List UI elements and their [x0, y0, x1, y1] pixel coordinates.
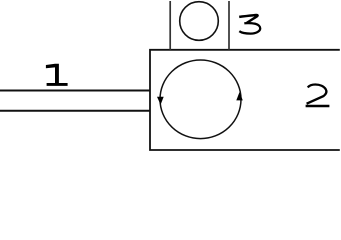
rotor circle [160, 60, 241, 139]
label 2 [306, 85, 330, 107]
gauge box 3 right edge [228, 1, 230, 50]
wire shaft lower line [0, 110, 150, 112]
rotor arrowhead left (down) [157, 97, 164, 105]
rotor arrowhead right (up) [236, 92, 243, 100]
wire shaft upper line [0, 90, 150, 92]
gauge circle [180, 2, 219, 41]
gauge box 3 left edge [169, 1, 171, 50]
label 1 [46, 64, 68, 86]
housing box 2 (open right edge, clipped) [150, 50, 340, 150]
label 3 [239, 15, 260, 34]
